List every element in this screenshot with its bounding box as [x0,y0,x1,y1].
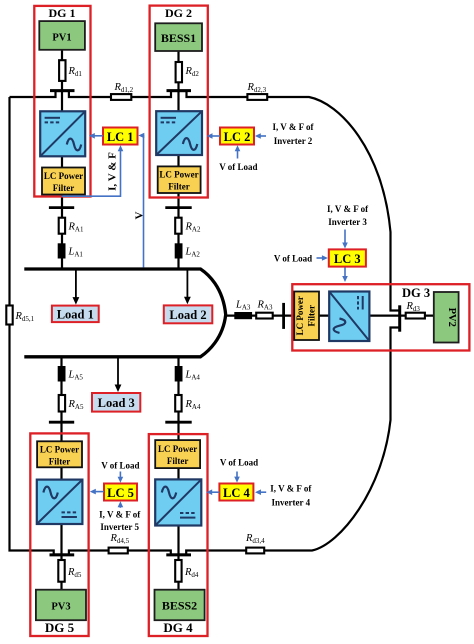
svg-text:LC Power: LC Power [44,171,83,181]
crossbar DG1 [49,206,74,209]
label Rd5 [67,567,82,579]
label RA2 [185,222,201,234]
svg-text:PV3: PV3 [51,602,70,613]
resistor Rd5 [58,560,64,582]
load 1 box [52,306,99,323]
svg-text:DG 4: DG 4 [163,620,193,635]
svg-text:Filter: Filter [49,456,71,466]
arrow bus to load3 [115,358,122,392]
label IVF inverter4 [270,484,312,508]
label RA3 [257,300,273,312]
label DG3 [402,286,430,300]
label DG2 [165,6,192,20]
blue arrow V of Load into LC3 [317,255,328,261]
svg-text:Filter: Filter [307,305,317,327]
label RA1 [68,222,84,234]
label Rd3 [406,301,421,313]
DG3 group box [292,284,469,350]
controller LC2 [220,128,254,145]
DG1 group box [34,6,90,197]
arrow bus to load2 [184,271,191,305]
blue arrow IVF inverter2 into LC2 [255,133,266,139]
PV2 source box [434,292,459,343]
svg-text:Filter: Filter [53,183,75,193]
arrow bus to load1 [73,271,80,305]
blue arrow LC1 to inverter1 [89,133,103,139]
node tap DG5 [50,553,75,556]
blue arrow V of Load into LC2 [235,145,241,158]
svg-text:DG 1: DG 1 [49,6,76,20]
resistor RA3 [256,313,273,319]
svg-text:Inverter 2: Inverter 2 [274,136,313,146]
inductor LA5 [58,366,66,382]
svg-text:V of Load: V of Load [274,254,312,264]
svg-text:V of Load: V of Load [101,461,139,471]
label Rd51 [15,311,35,323]
svg-text:DG 2: DG 2 [165,6,192,20]
BESS1 source box [155,23,202,51]
wire DG5 chain [60,357,62,590]
svg-text:PV2: PV2 [446,308,457,327]
label Rd2 [185,66,200,78]
label LA3 [235,300,251,312]
resistor Rd12 [111,94,131,100]
inductor LA4 [175,366,183,382]
resistor Rd2 [176,62,182,82]
svg-text:V of Load: V of Load [220,458,258,468]
label IVF inverter5 [99,510,141,533]
label IVF inverter3 [327,204,369,227]
label V rotated DG1 [133,211,145,219]
controller LC1 [103,128,138,145]
LC power filter DG3 [294,292,319,341]
label DG4 [163,620,193,635]
resistor Rd4 [175,560,181,582]
inverter U3 (DG3) [329,292,369,342]
controller LC4 [219,484,253,501]
wire DG4 chain [177,357,179,590]
label RA5 [68,399,84,411]
label V of Load DG3 [274,254,312,264]
load 2 box [164,305,213,323]
LC power filter DG4 [155,440,200,468]
svg-text:Filter: Filter [168,182,190,192]
crossbar DG5 [49,421,74,424]
node tap DG4 [166,553,191,556]
resistor Rd45 [109,548,128,554]
label IVF rotated DG1 [107,152,119,191]
svg-text:DG 3: DG 3 [402,286,430,300]
wire DG1 chain [61,50,63,268]
label RA4 [185,399,201,411]
inductor LA1 [58,243,66,258]
svg-text:PV1: PV1 [52,33,71,44]
label LA1 [68,247,84,259]
resistor Rd34 [246,548,264,554]
LC power filter DG1 [42,168,85,195]
inverter U2 (DG2) [156,111,202,155]
wire DG2 chain [177,51,179,268]
load 3 box [92,393,140,412]
blue arrow LC3 to inverter3 [342,268,348,283]
resistor Rd3 [406,313,425,319]
controller LC5 [104,484,137,501]
svg-text:Load 1: Load 1 [57,307,94,321]
blue arrow LC5 to inverter5 [90,489,104,495]
wire DG3 chain [226,315,434,317]
svg-text:I, V & F of: I, V & F of [99,510,141,520]
resistor RA4 [175,395,181,412]
svg-text:LC 2: LC 2 [224,130,251,144]
label IVF inverter2 [272,122,314,146]
label LA2 [185,247,201,259]
label DG1 [49,6,76,20]
label Rd1 [68,66,83,78]
svg-text:I, V & F: I, V & F [107,152,119,191]
PV3 source box [36,590,86,621]
blue feedback line bus V to LC1 [138,133,144,268]
label Rd12 [114,82,134,94]
resistor RA2 [175,218,181,234]
LC power filter DG5 [37,441,82,467]
label V of Load DG5 [101,461,139,471]
blue arrow IVF inverter5 into LC5 [118,501,124,508]
blue arrow IVF inverter4 into LC4 [255,489,266,495]
svg-text:I, V & F of: I, V & F of [270,484,312,494]
svg-text:Inverter 4: Inverter 4 [272,498,311,508]
svg-text:LC Power: LC Power [295,296,305,335]
svg-text:I, V & F of: I, V & F of [327,204,369,214]
resistor RA5 [59,395,65,412]
resistor Rd1 [59,60,65,81]
inverter U1 (DG1) [40,111,85,156]
svg-text:BESS2: BESS2 [162,599,197,613]
resistor RA1 [59,218,65,234]
node tap DG2 [167,89,192,92]
blue feedback line inverter1 output to LC1 [62,145,124,196]
label Rd4 [184,567,199,579]
label V of Load DG4 [220,458,258,468]
blue arrow IVF inverter3 into LC3 [342,230,348,249]
blue arrow LC2 to inverter2 [207,133,221,139]
label DG5 [45,620,75,635]
svg-text:V of Load: V of Load [219,162,257,172]
label LA5 [68,370,84,382]
crossbar DG2 [165,206,191,209]
wire ring main loop [10,91,399,555]
label Rd34 [245,533,265,545]
label LA4 [185,370,201,382]
svg-text:LC 5: LC 5 [107,486,134,500]
inductor LA3 [234,312,252,319]
svg-text:LC 1: LC 1 [107,130,134,144]
node tap DG3 [398,305,401,331]
resistor Rd51 [6,306,12,325]
label V of Load DG2 [219,162,257,172]
svg-text:DG 5: DG 5 [45,620,75,635]
svg-text:BESS1: BESS1 [161,31,196,45]
blue arrow V of Load into LC5 [118,472,124,483]
svg-text:Load 3: Load 3 [98,396,135,410]
svg-text:Filter: Filter [167,456,189,466]
BESS2 source box [155,590,205,621]
PV1 source box [39,21,85,50]
label Rd45 [110,533,130,545]
controller LC3 [329,249,366,266]
DG2 group box [150,6,208,198]
crossbar DG4 [165,421,191,424]
svg-text:Load 2: Load 2 [169,308,206,322]
node tap DG1 [50,89,75,92]
svg-text:LC Power: LC Power [158,444,197,454]
svg-text:LC 4: LC 4 [223,486,250,500]
DG5 group box [30,433,88,636]
crossbar DG3 [282,303,285,329]
resistor Rd23 [247,94,267,100]
svg-text:I, V & F of: I, V & F of [272,122,314,132]
inverter U4 (DG4) [155,479,201,525]
blue arrow LC4 to inverter4 [206,489,219,495]
bus AC feeder (thick) [24,269,225,357]
blue arrow V of Load into LC4 [234,472,240,483]
inductor LA2 [175,243,183,258]
LC power filter DG2 [158,166,201,193]
svg-text:LC Power: LC Power [159,170,198,180]
inverter U5 (DG5) [37,480,83,524]
svg-text:LC 3: LC 3 [334,252,361,266]
svg-text:LC Power: LC Power [40,444,79,454]
label Rd23 [247,82,267,94]
DG4 group box [149,434,208,636]
svg-text:V: V [133,211,145,219]
svg-text:Inverter 3: Inverter 3 [328,217,367,227]
svg-text:Inverter 5: Inverter 5 [100,522,139,532]
